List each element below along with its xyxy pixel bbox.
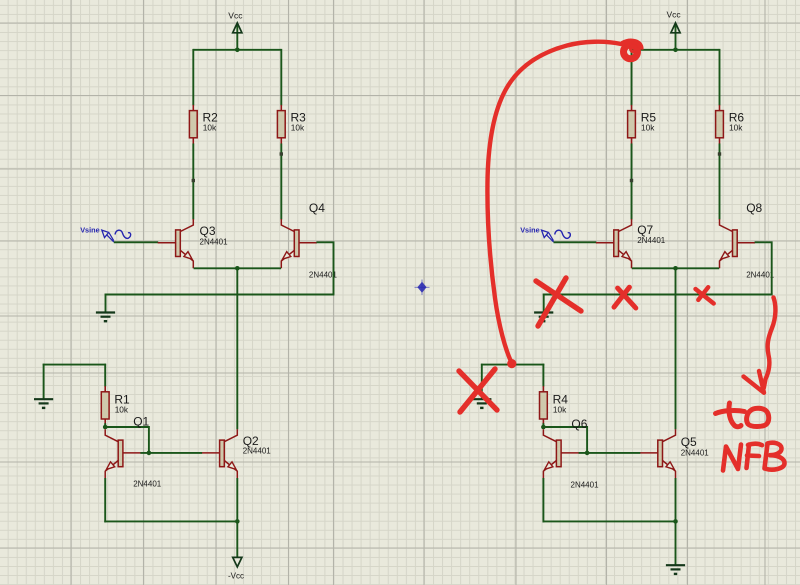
wire Vsine to Q7 base — [554, 241, 597, 243]
wire top rail (left) — [193, 49, 281, 51]
origin marker (blue crosshair) — [415, 280, 430, 296]
transistor Q2 2N4401 — [202, 429, 272, 478]
wire R5 to Q7 collector — [631, 144, 633, 220]
power flag -Vcc — [228, 557, 244, 580]
wire Vsine to Q3 base — [114, 241, 158, 243]
svg-text:10k: 10k — [115, 404, 129, 414]
wire Q3-Q4 emitter rail — [194, 267, 281, 269]
source Vsine (left input) — [80, 226, 130, 242]
wire long ground rail (left) — [105, 294, 335, 296]
node marker on R2-Q3 wire — [192, 179, 195, 182]
wire bias top (right) — [481, 364, 544, 366]
wire Q1-Q2 base rail — [140, 452, 202, 454]
transistor Q7 2N4401 — [596, 219, 666, 268]
red annotation: X over rail right — [696, 287, 714, 303]
wire Q6-Q5 base rail — [579, 452, 641, 454]
wire tail node down to Q5 collector — [675, 267, 677, 429]
svg-text:Q7: Q7 — [637, 223, 653, 237]
svg-text:Vsine: Vsine — [520, 226, 539, 235]
wire R2 to Q3 collector — [192, 144, 194, 220]
svg-text:2N4401: 2N4401 — [571, 481, 600, 490]
wire Vcc rail to R2 — [192, 49, 194, 106]
red annotation: long curve to bias node — [487, 42, 621, 363]
red annotation: knot loop at Vcc node — [622, 41, 641, 59]
junction top rail / Vcc (right) — [673, 48, 678, 53]
wire Q7-Q8 emitter rail — [632, 267, 719, 269]
svg-text:Vsine: Vsine — [80, 226, 99, 235]
svg-text:Q6: Q6 — [571, 417, 587, 431]
wire Q2 emitter down — [236, 478, 238, 521]
junction emitter rail (right) — [673, 266, 678, 271]
svg-text:2N4401: 2N4401 — [243, 446, 272, 455]
red annotation: X over rail left end — [536, 278, 581, 326]
wire Vcc rail to R3 — [280, 49, 282, 106]
svg-text:-Vcc: -Vcc — [228, 572, 244, 581]
wire Q5 emitter down — [675, 478, 677, 521]
wire to -Vcc flag — [236, 521, 238, 558]
wire bias drop to ground (left) — [43, 364, 45, 399]
wire top rail (right) — [632, 49, 720, 51]
ground (left rail) — [96, 313, 115, 322]
transistor Q3 2N4401 — [158, 219, 228, 268]
junction tie / base rail (right) — [585, 451, 590, 456]
wire Vcc rail to R6 — [719, 49, 721, 106]
transistor Q4 2N4401 — [281, 201, 337, 279]
power flag Vcc (right) — [667, 10, 682, 50]
junction bottom rail / -Vcc (left) — [235, 519, 240, 524]
wire Vcc rail to R5 — [631, 49, 633, 106]
ground (right bias, crossed out) — [472, 399, 491, 408]
wire tail node down to Q2 collector — [236, 267, 238, 429]
ground (right rail, crossed out) — [534, 313, 553, 322]
wire R6 to Q8 collector — [719, 144, 721, 220]
wire ground rail drop (left) — [105, 294, 107, 312]
wire Q4 base to ground rail — [316, 242, 333, 294]
wire crossed ground rail (right) — [543, 294, 773, 296]
junction R4 / Q6 collector — [541, 425, 546, 430]
wire crossed rail drop (right) — [543, 294, 545, 312]
ground (left bias) — [34, 399, 53, 408]
wire to bottom ground (right) — [675, 521, 677, 565]
red annotation: handwritten 'to' — [716, 403, 769, 427]
svg-text:10k: 10k — [641, 123, 655, 133]
red annotation: end blob — [507, 359, 516, 368]
junction R1 / Q1 collector — [103, 425, 108, 430]
wire Q8 base to crossed rail — [755, 242, 772, 294]
node marker on R5-Q7 wire — [630, 179, 633, 182]
wire Q6 emitter down — [542, 478, 544, 522]
junction emitter rail (left) — [235, 266, 240, 271]
resistor R5 10k — [628, 105, 657, 144]
node marker on R6-Q8 wire — [718, 152, 721, 155]
svg-text:Q8: Q8 — [746, 201, 762, 215]
wire bottom rail (right) — [543, 520, 677, 522]
wire Q1 collector-base tie — [104, 427, 149, 453]
svg-text:10k: 10k — [729, 123, 743, 133]
svg-text:2N4401: 2N4401 — [637, 236, 666, 245]
svg-text:2N4401: 2N4401 — [746, 270, 775, 279]
wire Q6 collector-base tie — [543, 427, 588, 453]
resistor R1 10k — [101, 386, 130, 425]
svg-text:Vcc: Vcc — [228, 10, 243, 20]
transistor Q8 2N4401 — [720, 201, 775, 280]
svg-text:10k: 10k — [203, 123, 217, 133]
wire Q1 emitter down — [104, 478, 106, 522]
red annotation: X over right bias ground — [459, 369, 497, 412]
red annotation: X over rail middle — [614, 287, 636, 308]
wire R1 to Q1 collector node — [104, 423, 106, 428]
svg-text:2N4401: 2N4401 — [200, 238, 229, 247]
node marker on R3-Q4 wire — [280, 152, 283, 155]
svg-text:Q1: Q1 — [133, 414, 149, 428]
svg-text:2N4401: 2N4401 — [681, 449, 710, 458]
red annotation: squiggly arrow to NFB — [744, 298, 776, 393]
transistor Q5 2N4401 — [640, 429, 709, 478]
wire bottom rail (left) — [104, 520, 238, 522]
transistor Q1 2N4401 — [105, 414, 162, 488]
ground (right bottom) — [666, 565, 685, 574]
resistor R2 10k — [189, 105, 218, 144]
svg-text:Q5: Q5 — [681, 435, 697, 449]
wire bias top (left) — [43, 364, 106, 366]
red annotation: handwritten 'NFB' — [723, 443, 785, 471]
svg-text:10k: 10k — [291, 123, 305, 133]
wire R4 to Q6 collector node — [542, 423, 544, 428]
source Vsine (right input) — [520, 226, 570, 242]
wire R3 to Q4 collector — [280, 144, 282, 220]
power flag Vcc (left) — [228, 10, 243, 49]
junction tie / base rail (left) — [147, 451, 152, 456]
resistor R6 10k — [716, 105, 745, 144]
junction top rail / Vcc (left) — [235, 48, 240, 53]
svg-text:Vcc: Vcc — [667, 10, 682, 20]
svg-text:Q3: Q3 — [200, 224, 216, 238]
wire bias to R1 — [104, 364, 106, 387]
resistor R3 10k — [277, 105, 306, 144]
wire bias drop to ground (right) — [481, 364, 483, 399]
wire bias to R4 — [542, 364, 544, 387]
resistor R4 10k — [540, 386, 569, 425]
transistor Q6 2N4401 — [543, 417, 599, 489]
svg-text:Q4: Q4 — [309, 201, 325, 215]
svg-text:2N4401: 2N4401 — [133, 479, 162, 488]
junction bottom rail / ground (right) — [673, 519, 678, 524]
svg-text:10k: 10k — [553, 404, 567, 414]
